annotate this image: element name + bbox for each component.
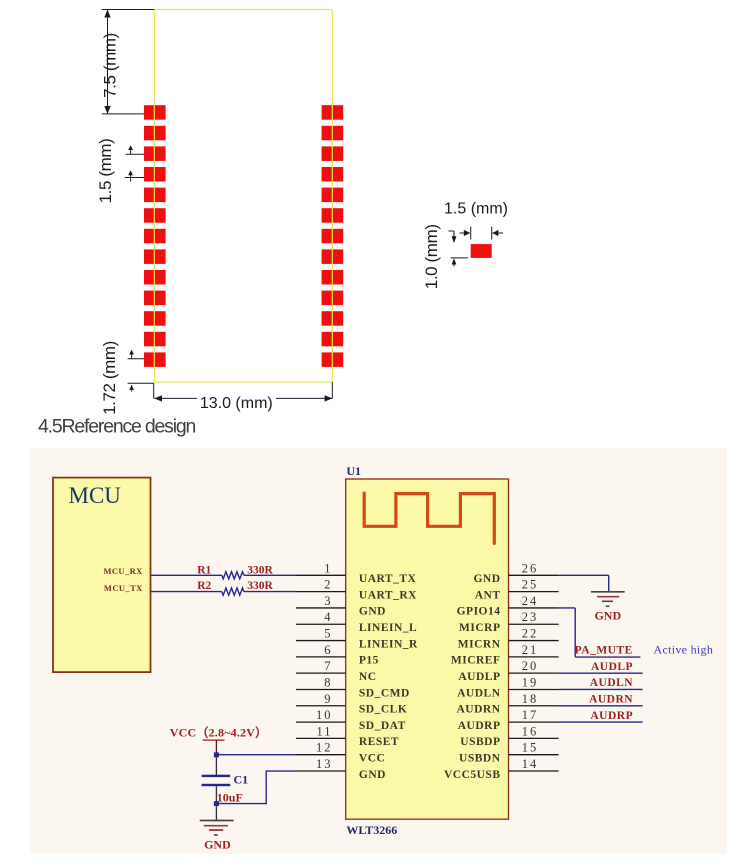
svg-text:8: 8 xyxy=(324,675,332,689)
svg-text:15: 15 xyxy=(522,741,539,755)
svg-text:SD_DAT: SD_DAT xyxy=(359,720,406,732)
svg-text:9: 9 xyxy=(324,692,332,706)
svg-text:AUDRN: AUDRN xyxy=(456,704,500,716)
svg-text:11: 11 xyxy=(316,724,332,738)
svg-text:AUDRP: AUDRP xyxy=(590,710,633,722)
svg-text:6: 6 xyxy=(324,643,332,657)
svg-text:LINEIN_L: LINEIN_L xyxy=(359,622,417,634)
svg-text:GND: GND xyxy=(594,609,621,623)
svg-text:MCU_RX: MCU_RX xyxy=(103,566,143,576)
svg-text:10uF: 10uF xyxy=(217,791,243,805)
svg-text:RESET: RESET xyxy=(359,736,399,748)
svg-text:GPIO14: GPIO14 xyxy=(457,606,501,618)
svg-text:SD_CMD: SD_CMD xyxy=(359,687,410,699)
svg-text:UART_RX: UART_RX xyxy=(359,589,417,601)
svg-text:AUDLP: AUDLP xyxy=(591,661,633,673)
svg-text:1.5 (mm): 1.5 (mm) xyxy=(444,201,508,218)
svg-text:MCU_TX: MCU_TX xyxy=(104,583,143,593)
svg-text:1: 1 xyxy=(324,561,332,575)
svg-text:330R: 330R xyxy=(247,565,273,577)
svg-text:22: 22 xyxy=(522,627,539,641)
svg-text:20: 20 xyxy=(522,659,539,673)
svg-text:5: 5 xyxy=(324,627,332,641)
svg-text:19: 19 xyxy=(522,675,539,689)
svg-text:MICRN: MICRN xyxy=(458,638,501,650)
svg-text:GND: GND xyxy=(473,573,500,585)
svg-text:GND: GND xyxy=(359,606,386,618)
svg-text:7.5 (mm): 7.5 (mm) xyxy=(101,33,120,98)
svg-text:P15: P15 xyxy=(359,655,379,667)
svg-text:13.0 (mm): 13.0 (mm) xyxy=(200,395,273,412)
svg-text:R2: R2 xyxy=(197,580,211,592)
svg-text:10: 10 xyxy=(316,708,333,722)
svg-text:MICRP: MICRP xyxy=(459,622,500,634)
svg-text:NC: NC xyxy=(359,671,377,683)
svg-text:17: 17 xyxy=(522,708,539,722)
svg-text:ANT: ANT xyxy=(475,589,501,601)
svg-text:AUDRP: AUDRP xyxy=(458,720,501,732)
svg-text:23: 23 xyxy=(522,610,539,624)
svg-text:12: 12 xyxy=(316,741,333,755)
svg-text:25: 25 xyxy=(522,578,539,592)
svg-text:GND: GND xyxy=(359,769,386,781)
svg-text:7: 7 xyxy=(324,659,332,673)
svg-text:4.5Reference design: 4.5Reference design xyxy=(38,416,196,438)
svg-text:MCU: MCU xyxy=(69,483,122,508)
svg-text:24: 24 xyxy=(522,594,539,608)
svg-text:3: 3 xyxy=(324,594,332,608)
svg-text:1.0 (mm): 1.0 (mm) xyxy=(422,224,441,289)
svg-text:AUDLN: AUDLN xyxy=(457,687,501,699)
svg-text:VCC5USB: VCC5USB xyxy=(444,769,501,781)
svg-text:26: 26 xyxy=(522,561,539,575)
svg-text:4: 4 xyxy=(324,610,332,624)
svg-text:13: 13 xyxy=(316,757,333,771)
svg-text:U1: U1 xyxy=(346,464,361,478)
svg-text:VCC: VCC xyxy=(359,753,385,765)
svg-text:1.5 (mm): 1.5 (mm) xyxy=(96,139,115,204)
svg-text:2: 2 xyxy=(324,578,332,592)
svg-text:GND: GND xyxy=(204,838,231,852)
svg-text:LINEIN_R: LINEIN_R xyxy=(359,638,418,650)
svg-text:18: 18 xyxy=(522,692,539,706)
svg-text:14: 14 xyxy=(522,757,539,771)
svg-text:SD_CLK: SD_CLK xyxy=(359,704,407,716)
svg-text:WLT3266: WLT3266 xyxy=(346,823,397,837)
svg-text:330R: 330R xyxy=(247,580,273,592)
svg-text:21: 21 xyxy=(522,643,539,657)
svg-text:R1: R1 xyxy=(197,565,211,577)
svg-text:UART_TX: UART_TX xyxy=(359,573,417,585)
svg-text:USBDN: USBDN xyxy=(459,753,501,765)
svg-text:C1: C1 xyxy=(234,773,249,787)
svg-text:PA_MUTE: PA_MUTE xyxy=(575,645,633,657)
svg-text:1.72 (mm): 1.72 (mm) xyxy=(100,341,119,415)
svg-text:AUDRN: AUDRN xyxy=(589,693,633,705)
svg-text:MICREF: MICREF xyxy=(451,655,501,667)
svg-text:AUDLP: AUDLP xyxy=(458,671,500,683)
svg-text:Active high: Active high xyxy=(654,643,714,657)
svg-text:AUDLN: AUDLN xyxy=(590,677,634,689)
svg-text:VCC（2.8~4.2V）: VCC（2.8~4.2V） xyxy=(170,725,268,740)
svg-text:USBDP: USBDP xyxy=(460,736,500,748)
svg-text:16: 16 xyxy=(522,724,539,738)
